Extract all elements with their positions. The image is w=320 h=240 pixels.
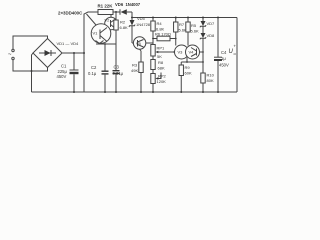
wire emitter bar <box>181 61 203 63</box>
wire R1 to VD6 <box>113 11 120 13</box>
junction RP2 bottom <box>152 91 154 93</box>
AC input terminal top <box>12 36 48 52</box>
resistor R3 <box>139 49 143 92</box>
label C2 <box>88 65 97 76</box>
label R3 <box>131 63 138 74</box>
resistor R2 <box>114 12 118 44</box>
junction input/left wire <box>31 70 33 72</box>
svg-text:0.1μ: 0.1μ <box>88 71 97 76</box>
svg-text:450V: 450V <box>57 74 67 79</box>
junction R5 top <box>187 17 189 19</box>
bridge internal diode <box>39 50 56 56</box>
potentiometer RP1 <box>151 45 179 57</box>
svg-text:R8: R8 <box>158 60 164 65</box>
junction R3 bottom <box>140 91 142 93</box>
svg-text:R3: R3 <box>132 63 138 68</box>
wire V4 base to reference node <box>199 51 203 53</box>
svg-text:VD7: VD7 <box>207 21 216 26</box>
label R10 <box>207 73 215 84</box>
bridge rectifier VD1-VD4 diamond <box>33 39 62 68</box>
resistor R4 <box>151 18 155 46</box>
svg-text:225μ: 225μ <box>58 69 68 74</box>
svg-text:VD6 1N4007: VD6 1N4007 <box>115 2 141 7</box>
svg-text:RP1: RP1 <box>157 45 166 50</box>
junction R6 left <box>152 38 154 40</box>
label R2 <box>120 20 129 31</box>
svg-text:V5: V5 <box>136 41 142 46</box>
svg-text:6.8K: 6.8K <box>120 25 129 30</box>
wire pointer to V1 <box>87 14 97 25</box>
transistor V5 <box>132 37 146 49</box>
label R9 <box>185 65 192 76</box>
junction R9 bottom <box>180 91 182 93</box>
transistor V1 <box>91 24 111 44</box>
V1 emitter/base leads <box>96 41 104 45</box>
svg-text:R1 22K: R1 22K <box>98 4 114 9</box>
transistor V2 <box>105 15 118 30</box>
top bus rail <box>132 17 237 19</box>
svg-text:V2: V2 <box>105 18 111 23</box>
svg-text:VD8: VD8 <box>207 33 216 38</box>
svg-text:V1: V1 <box>93 31 99 36</box>
wire bridge left corner to bottom rail <box>32 53 34 92</box>
diode VD6 <box>120 9 132 15</box>
svg-text:V3: V3 <box>178 50 184 55</box>
label RP1 <box>157 45 166 59</box>
AC input terminal bottom <box>12 57 48 71</box>
junction bus left <box>131 17 133 19</box>
junction R6 right <box>175 38 177 40</box>
junction R7 top <box>175 17 177 19</box>
svg-text:R2: R2 <box>120 20 126 25</box>
svg-text:C3: C3 <box>114 65 120 70</box>
label R8 <box>158 60 165 71</box>
svg-text:C4: C4 <box>221 50 227 55</box>
capacitor C4 <box>214 18 222 93</box>
zener diode VD8 <box>200 33 206 73</box>
svg-text:R9: R9 <box>185 65 191 70</box>
bottom rail <box>32 91 238 93</box>
wire V5 to RP1 column <box>146 42 153 44</box>
resistor R10 <box>201 73 205 92</box>
capacitor C2 <box>102 44 109 92</box>
svg-text:V4: V4 <box>189 50 195 55</box>
junction VD7 top <box>202 17 204 19</box>
wire base bar under V1 <box>96 43 116 45</box>
wire VD6 corner down <box>131 12 133 18</box>
svg-text:1N4728: 1N4728 <box>136 22 151 27</box>
junction C2 top <box>104 43 106 45</box>
label R5 <box>191 23 200 34</box>
svg-text:VD5: VD5 <box>137 16 146 21</box>
junction R4 top <box>152 17 154 19</box>
junction C4 top <box>217 17 219 19</box>
wire emitters down <box>186 58 188 63</box>
zener diode VD5 <box>129 18 135 44</box>
svg-text:C1: C1 <box>61 64 67 69</box>
transistor V4 <box>186 45 200 59</box>
label R4 <box>156 21 165 32</box>
resistor R7 <box>174 18 178 46</box>
junction R2 top <box>115 11 117 13</box>
label R7 <box>179 22 188 33</box>
svg-text:R4: R4 <box>157 21 163 26</box>
label RP2 <box>157 74 167 85</box>
potentiometer RP2 <box>151 73 161 93</box>
wire bridge right corner to node <box>62 52 84 54</box>
resistor R6 <box>153 36 176 41</box>
transistor V3 <box>175 45 189 59</box>
label C4 <box>219 50 229 68</box>
resistor R8 <box>151 56 155 74</box>
wire main positive riser x84 <box>84 12 98 92</box>
svg-text:RP2: RP2 <box>158 74 167 79</box>
zener diode VD7 <box>200 18 206 34</box>
capacitor C1 <box>70 53 79 92</box>
resistor R1 <box>98 10 113 15</box>
svg-text:~: ~ <box>8 52 12 58</box>
junction zener/emitter <box>202 61 204 63</box>
junction R10 bottom <box>202 91 204 93</box>
resistor R9 <box>179 62 183 92</box>
svg-text:C2: C2 <box>91 65 97 70</box>
svg-text:o: o <box>234 51 237 56</box>
junction C1 bottom <box>73 91 75 93</box>
junction C1 top <box>73 52 75 54</box>
label C3 <box>113 65 124 77</box>
junction C3 bottom <box>115 91 117 93</box>
svg-text:1μ: 1μ <box>221 56 226 61</box>
svg-text:5K: 5K <box>157 54 162 59</box>
capacitor C3 <box>113 44 120 92</box>
svg-text:R7: R7 <box>179 22 185 27</box>
junction C4 bottom <box>217 91 219 93</box>
label output Uo <box>229 44 237 57</box>
junction C2 bottom <box>104 91 106 93</box>
svg-text:VD1 — VD4: VD1 — VD4 <box>57 41 80 46</box>
svg-text:450V: 450V <box>219 63 229 68</box>
svg-text:+: + <box>234 44 237 49</box>
svg-text:5.6K: 5.6K <box>191 29 200 34</box>
svg-text:68K: 68K <box>158 66 165 71</box>
svg-text:2×3DD400C: 2×3DD400C <box>58 11 83 16</box>
label C1 <box>57 64 68 80</box>
svg-text:60K: 60K <box>185 71 192 76</box>
junction riser/dc node <box>83 52 85 54</box>
svg-text:0.01μ: 0.01μ <box>113 71 124 76</box>
svg-text:120K: 120K <box>157 79 167 84</box>
svg-text:49K: 49K <box>131 68 138 73</box>
svg-text:R5: R5 <box>191 23 197 28</box>
svg-text:80K: 80K <box>207 78 214 83</box>
resistor R5 <box>186 18 190 46</box>
wire output right edge <box>236 18 238 93</box>
svg-text:R10: R10 <box>207 73 215 78</box>
junction emitter <box>186 61 188 63</box>
